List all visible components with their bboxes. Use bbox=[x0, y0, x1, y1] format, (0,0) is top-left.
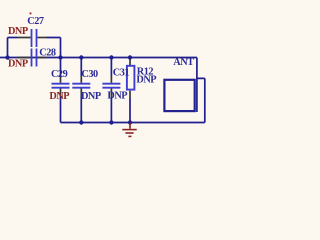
svg-text:C27: C27 bbox=[27, 16, 44, 27]
svg-text:ANT: ANT bbox=[173, 57, 194, 68]
svg-text:C28: C28 bbox=[39, 47, 56, 58]
svg-text:DNP: DNP bbox=[81, 91, 101, 102]
svg-text:DNP: DNP bbox=[136, 75, 156, 86]
svg-text:C29: C29 bbox=[51, 69, 68, 80]
svg-text:C30: C30 bbox=[81, 69, 98, 80]
svg-text:DNP: DNP bbox=[8, 58, 28, 69]
svg-text:DNP: DNP bbox=[107, 90, 127, 101]
svg-text:DNP: DNP bbox=[49, 91, 69, 102]
svg-text:DNP: DNP bbox=[8, 26, 28, 37]
svg-text:C31: C31 bbox=[113, 68, 130, 79]
